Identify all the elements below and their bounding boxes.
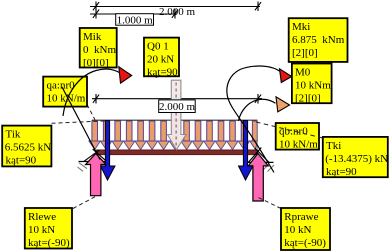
svg-text:6.5625 kN: 6.5625 kN xyxy=(5,142,52,154)
svg-text:qa:nr0: qa:nr0 xyxy=(47,80,76,92)
svg-text:10 kN: 10 kN xyxy=(28,224,55,236)
svg-text:10 kNm: 10 kNm xyxy=(295,80,331,92)
svg-text:Rlewe: Rlewe xyxy=(28,211,56,223)
svg-text:Q0 1: Q0 1 xyxy=(147,41,169,53)
svg-text:1.000 m: 1.000 m xyxy=(117,14,154,26)
svg-text:[2][0]: [2][0] xyxy=(292,47,318,59)
svg-text:20 kN: 20 kN xyxy=(147,54,174,66)
svg-text:qb:nr0: qb:nr0 xyxy=(279,126,308,138)
svg-text:[0][0]: [0][0] xyxy=(83,57,109,69)
svg-text:kąt=90: kąt=90 xyxy=(6,155,37,167)
svg-text:(-13.4375) kN: (-13.4375) kN xyxy=(325,153,388,165)
svg-text:10 kN/m: 10 kN/m xyxy=(279,139,318,151)
svg-text:2.000 m: 2.000 m xyxy=(159,6,196,18)
svg-text:[2][0]: [2][0] xyxy=(295,93,321,105)
svg-text:Mik: Mik xyxy=(83,31,102,43)
svg-text:Tki: Tki xyxy=(326,140,341,152)
svg-text:6.875 kNm: 6.875 kNm xyxy=(292,34,345,46)
svg-text:M0: M0 xyxy=(295,67,311,79)
svg-text:kąt=90: kąt=90 xyxy=(326,166,357,178)
svg-text:2.000 m: 2.000 m xyxy=(159,101,196,113)
svg-text:kąt=(-90): kąt=(-90) xyxy=(284,237,326,249)
svg-text:kąt=90: kąt=90 xyxy=(147,67,178,79)
svg-text:Mki: Mki xyxy=(292,21,310,33)
svg-text:Rprawe: Rprawe xyxy=(284,211,318,223)
svg-text:Tik: Tik xyxy=(6,129,21,141)
svg-text:kąt=(-90): kąt=(-90) xyxy=(28,237,70,249)
svg-text:0 kNm: 0 kNm xyxy=(83,44,116,56)
svg-text:10 kN: 10 kN xyxy=(284,224,311,236)
